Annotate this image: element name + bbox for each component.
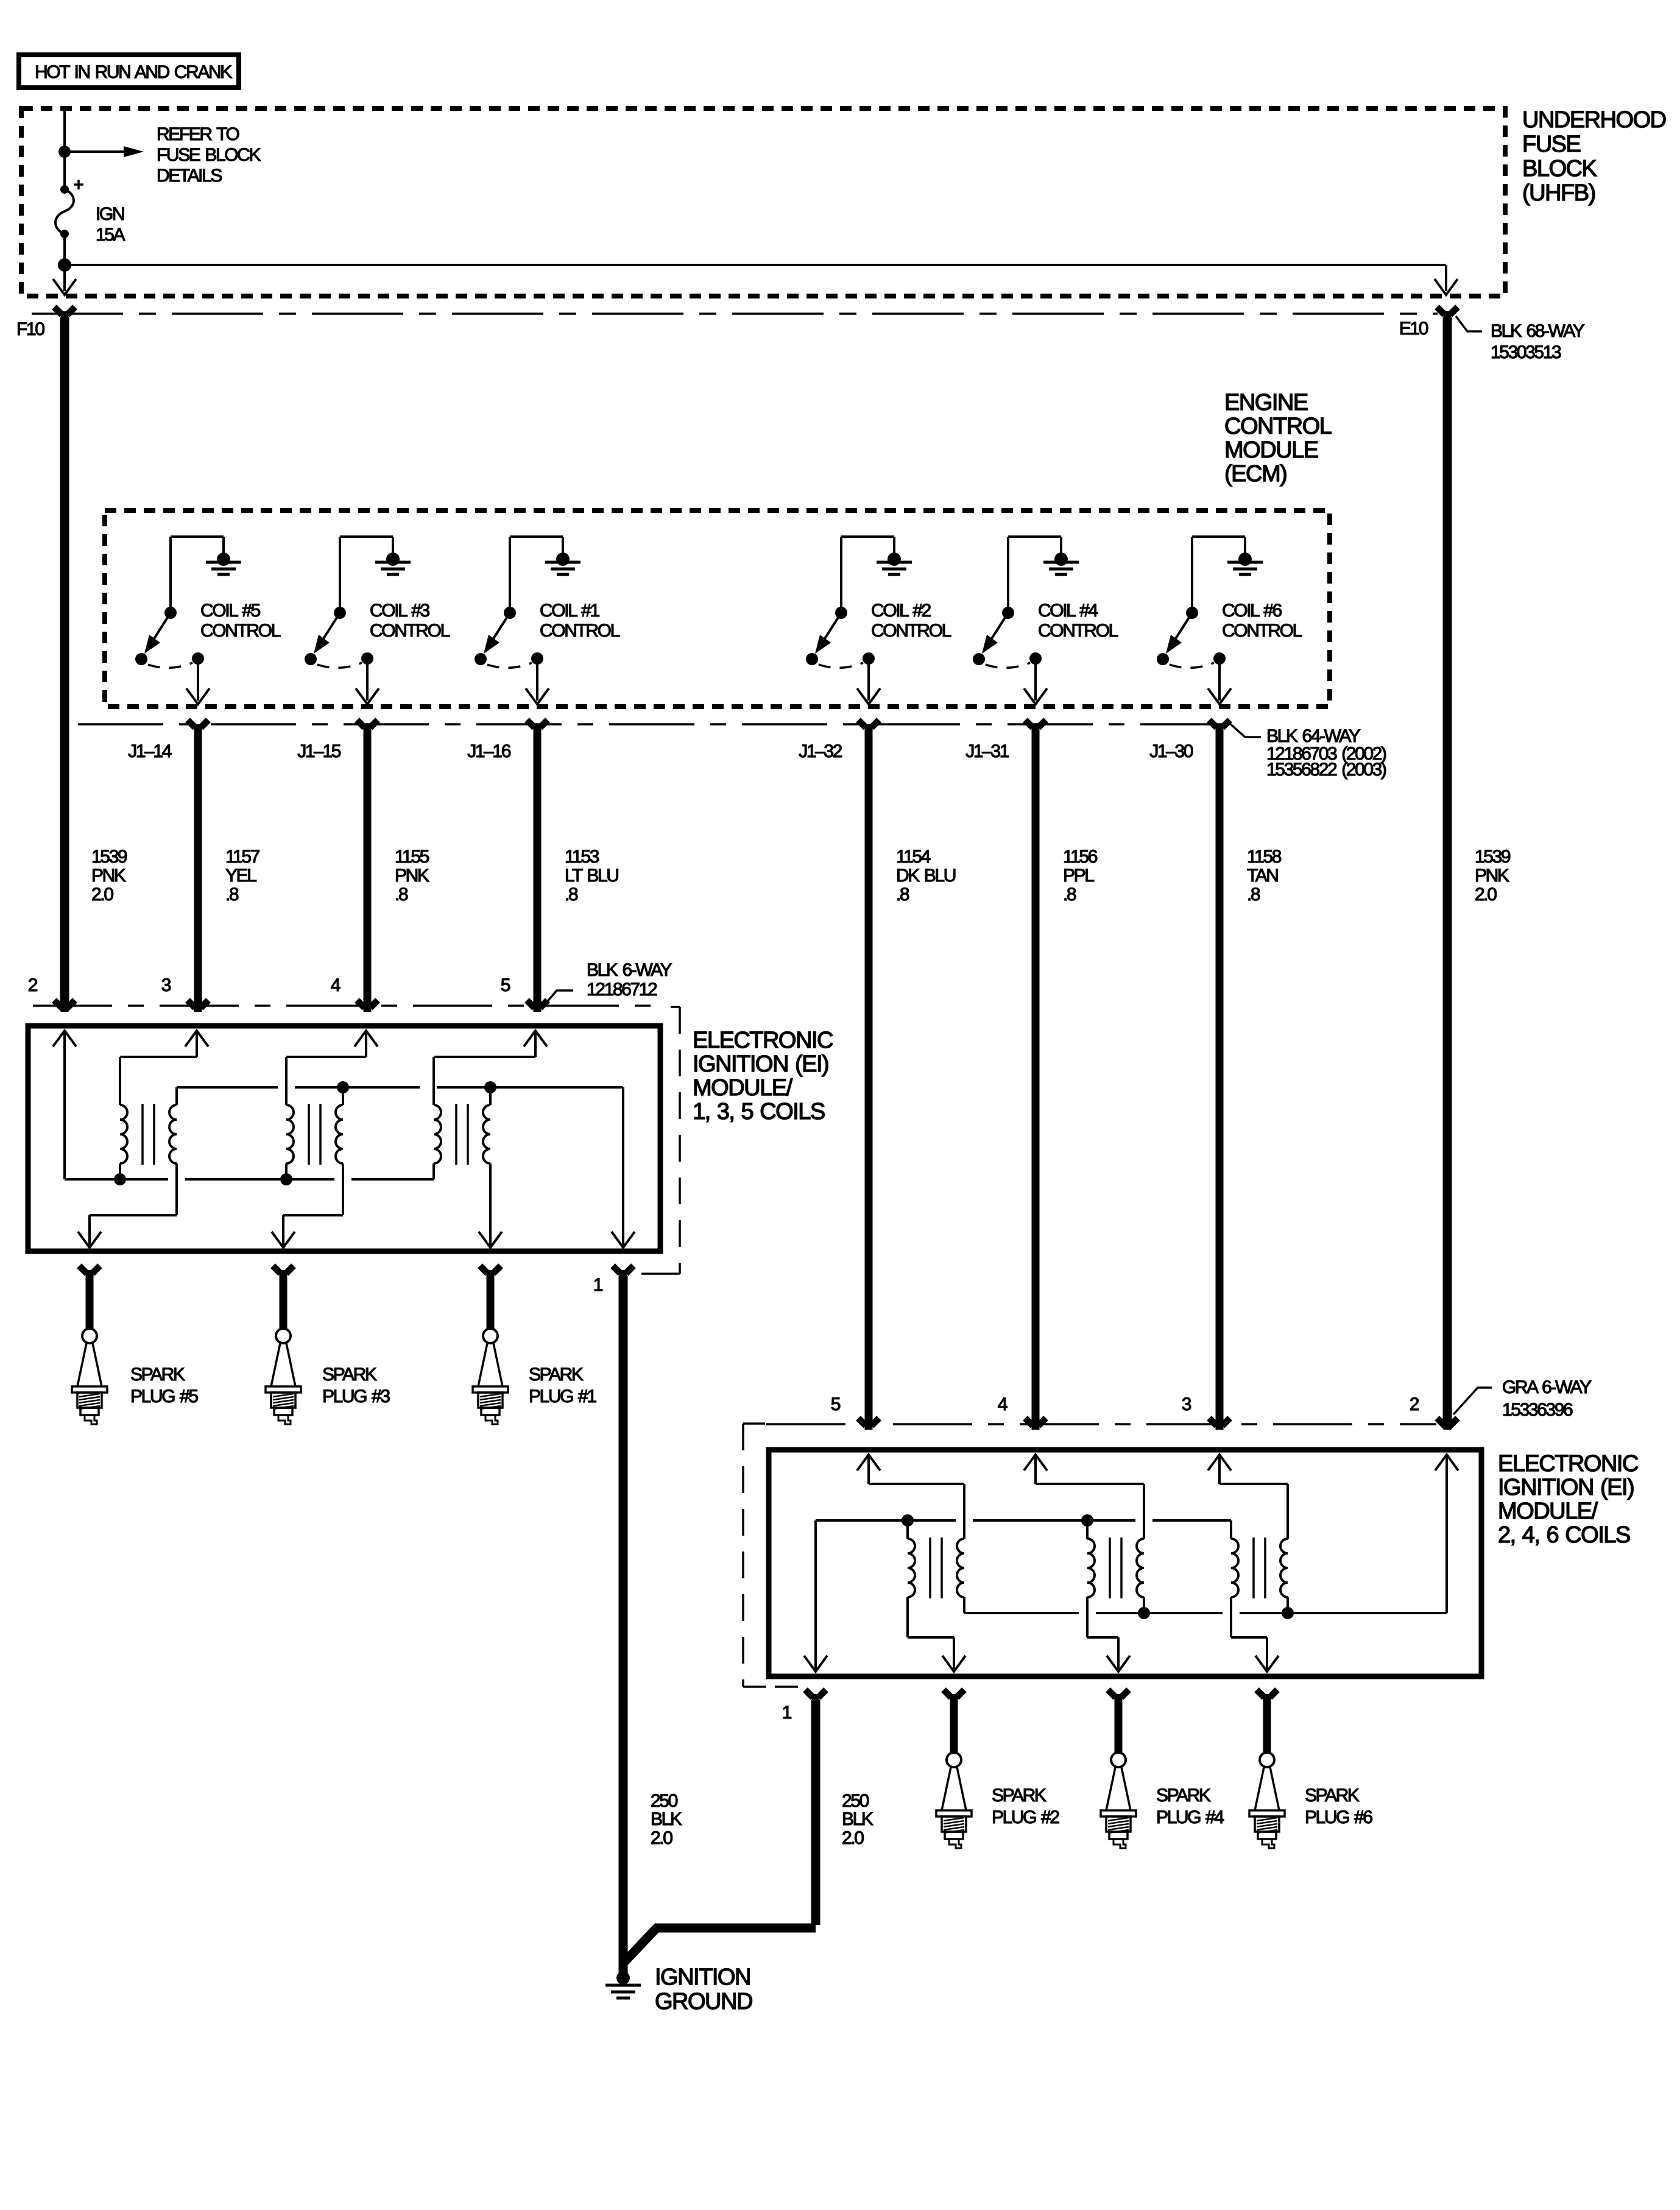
- ignition coil transformer T1 (EI module 2): [908, 1537, 964, 1598]
- svg-text:250: 250: [842, 1791, 869, 1811]
- ignition coil transformer T2 (EI module 2): [1087, 1537, 1144, 1598]
- wire secondary T2 to pin output: [272, 1163, 343, 1248]
- pin spark plug 2 out EI module 2: [944, 1690, 964, 1701]
- pin pin 1 ground out EI module 1: [613, 1266, 634, 1277]
- connector line BLK 64-WAY J1: [78, 723, 1230, 725]
- svg-text:DETAILS: DETAILS: [157, 166, 222, 186]
- coil #6 control switch wiring: [1192, 537, 1245, 608]
- svg-text:2.0: 2.0: [1475, 884, 1497, 905]
- switch contacts coil #6: [1157, 652, 1226, 668]
- wire secondary T3 to pin output: [479, 1163, 502, 1248]
- node primary T1 bottom: [114, 1173, 126, 1185]
- ignition coil transformer T2 (EI module 1): [286, 1104, 343, 1165]
- pin spark plug 6 out EI module 2: [1257, 1690, 1277, 1701]
- pin pin 1 ground out EI module 2: [805, 1690, 826, 1701]
- label COIL #2 CONTROL: [871, 601, 951, 641]
- svg-text:PPL: PPL: [1063, 866, 1094, 886]
- wire 250 BLK 2.0 from EI module 2 pin 1: [624, 1700, 874, 1963]
- svg-text:SPARK: SPARK: [992, 1785, 1046, 1806]
- switch pivot node coil #3: [334, 607, 346, 619]
- svg-text:1539: 1539: [91, 847, 127, 867]
- svg-text:PNK: PNK: [1475, 866, 1509, 886]
- svg-text:2.0: 2.0: [651, 1828, 672, 1848]
- svg-text:4: 4: [331, 975, 341, 995]
- switch arm coil #2: [815, 613, 841, 654]
- svg-text:2.0: 2.0: [91, 884, 113, 905]
- primary bottom bus EI module 2: [964, 1597, 1447, 1613]
- connector label BLK 6-WAY 12186712: [546, 960, 672, 1003]
- svg-text:TAN: TAN: [1247, 866, 1278, 886]
- pin 1 label EI module 2: [782, 1703, 792, 1723]
- svg-text:1155: 1155: [395, 847, 429, 867]
- label COIL #5 CONTROL: [200, 601, 281, 641]
- svg-text:15303513: 15303513: [1491, 342, 1561, 362]
- svg-text:CONTROL: CONTROL: [540, 621, 620, 641]
- svg-text:IGNITION: IGNITION: [655, 1965, 750, 1990]
- pin E10: [1399, 307, 1458, 339]
- spark plug #2: [936, 1699, 1059, 1848]
- wire 250 BLK 2.0 from EI module 1 pin 1: [623, 1276, 682, 1974]
- wire secondary bus to pin 1 output module 2: [804, 1520, 827, 1672]
- coil #1 control switch wiring: [510, 537, 563, 608]
- svg-text:J1–16: J1–16: [467, 741, 510, 761]
- svg-text:FUSE BLOCK: FUSE BLOCK: [157, 145, 261, 165]
- node secondary T3 top: [484, 1081, 496, 1093]
- svg-text:IGN: IGN: [96, 204, 124, 224]
- svg-text:BLK: BLK: [651, 1809, 682, 1829]
- svg-text:COIL #6: COIL #6: [1222, 601, 1282, 621]
- svg-text:PLUG #3: PLUG #3: [322, 1386, 390, 1407]
- switch pivot node coil #1: [504, 607, 516, 619]
- node secondary T2 top module 2: [1081, 1514, 1093, 1527]
- svg-text:IGNITION (EI): IGNITION (EI): [1498, 1475, 1634, 1500]
- switch contacts coil #2: [806, 652, 875, 668]
- svg-text:GRA 6-WAY: GRA 6-WAY: [1502, 1377, 1592, 1397]
- svg-text:5: 5: [831, 1394, 841, 1414]
- pin 1 label EI module 1: [593, 1275, 603, 1295]
- underhood fuse block (UHFB) dashed box: [21, 107, 1666, 296]
- svg-text:1156: 1156: [1063, 847, 1098, 867]
- svg-text:1539: 1539: [1475, 847, 1511, 867]
- svg-text:COIL #4: COIL #4: [1038, 601, 1098, 621]
- switch arm coil #3: [314, 613, 340, 654]
- svg-text:PLUG #1: PLUG #1: [529, 1386, 596, 1407]
- svg-text:SPARK: SPARK: [1305, 1785, 1360, 1806]
- svg-text:15336396: 15336396: [1502, 1400, 1573, 1420]
- svg-text:1: 1: [593, 1275, 603, 1295]
- spark plug #1: [473, 1275, 596, 1424]
- svg-text:PLUG #2: PLUG #2: [992, 1807, 1059, 1827]
- pin spark plug 1 out EI module 1: [480, 1266, 501, 1277]
- ignition ground symbol: [605, 1965, 752, 2014]
- svg-text:ELECTRONIC: ELECTRONIC: [693, 1028, 833, 1053]
- svg-text:.8: .8: [225, 884, 239, 905]
- svg-text:5: 5: [501, 975, 510, 995]
- svg-text:BLK 68-WAY: BLK 68-WAY: [1491, 321, 1585, 341]
- wire 1156 PPL .8: [1036, 732, 1098, 1429]
- svg-text:SPARK: SPARK: [322, 1364, 377, 1385]
- svg-text:12186712: 12186712: [587, 980, 657, 1000]
- arrow coil #3 output: [356, 658, 379, 704]
- label COIL #6 CONTROL: [1222, 601, 1302, 641]
- arrow into E10: [1435, 279, 1458, 295]
- svg-text:COIL #5: COIL #5: [200, 601, 261, 621]
- switch pivot node coil #5: [164, 607, 177, 619]
- svg-text:.8: .8: [1247, 884, 1260, 905]
- fuse IGN 15A: [55, 152, 125, 265]
- svg-text:.8: .8: [1063, 884, 1076, 905]
- wire secondary T1 to spark plug 2 output: [908, 1597, 965, 1672]
- spark plug #3: [266, 1275, 390, 1424]
- arrow coil #4 output: [1024, 658, 1047, 704]
- svg-text:J1–15: J1–15: [297, 741, 341, 761]
- svg-text:2, 4, 6 COILS: 2, 4, 6 COILS: [1498, 1522, 1630, 1548]
- wire secondary bus to pin 1 output: [612, 1087, 635, 1248]
- svg-text:250: 250: [651, 1791, 678, 1811]
- connector line BLK 6-WAY: [33, 1004, 658, 1007]
- connector label GRA 6-WAY 15336396: [1453, 1377, 1592, 1420]
- svg-text:1, 3, 5 COILS: 1, 3, 5 COILS: [693, 1099, 825, 1124]
- svg-text:REFER TO: REFER TO: [157, 124, 239, 144]
- ground (coil #5 driver): [206, 552, 241, 574]
- svg-text:15A: 15A: [96, 225, 125, 245]
- pin J1–16: [467, 720, 548, 761]
- svg-text:SPARK: SPARK: [1156, 1785, 1211, 1806]
- svg-text:UNDERHOOD: UNDERHOOD: [1522, 107, 1666, 133]
- pin 2 of GRA 6-WAY: [1410, 1394, 1458, 1430]
- engine control module (ECM) dashed box: [105, 390, 1332, 707]
- svg-text:1157: 1157: [225, 847, 260, 867]
- wire 1539 PNK 2.0 from E10: [1447, 317, 1511, 1429]
- svg-text:(ECM): (ECM): [1224, 461, 1286, 487]
- svg-text:LT BLU: LT BLU: [565, 866, 618, 886]
- switch arm coil #5: [144, 613, 171, 654]
- switch contacts coil #3: [305, 652, 373, 668]
- svg-text:PNK: PNK: [395, 866, 429, 886]
- secondary top bus EI module 2: [816, 1520, 1231, 1539]
- pin J1–15: [297, 720, 378, 761]
- svg-text:MODULE/: MODULE/: [693, 1075, 793, 1101]
- wire 1157 YEL .8: [198, 732, 260, 1011]
- pin 4 of BLK 6-WAY: [331, 975, 378, 1012]
- pin J1–30: [1149, 720, 1230, 761]
- arrow pin 3 feed EI module 2: [1208, 1455, 1288, 1539]
- wire secondary T2 to spark plug 4 output: [1087, 1597, 1130, 1672]
- arrow coil #1 output: [526, 658, 549, 704]
- svg-text:FUSE: FUSE: [1522, 132, 1581, 157]
- pin F10: [16, 307, 75, 339]
- svg-text:SPARK: SPARK: [130, 1364, 185, 1385]
- arrow pin 2 feed EI module 2: [1435, 1455, 1458, 1613]
- node primary T2 bottom: [280, 1173, 292, 1185]
- svg-text:PNK: PNK: [91, 866, 126, 886]
- switch contacts coil #4: [973, 652, 1042, 668]
- coil #4 control switch wiring: [1008, 537, 1061, 608]
- arrow pin 5 feed EI module 2: [857, 1455, 964, 1539]
- spark plug #5: [72, 1275, 198, 1424]
- ground (coil #4 driver): [1043, 552, 1079, 574]
- arrow pin 2 feed EI module 1: [53, 1031, 76, 1179]
- svg-text:SPARK: SPARK: [529, 1364, 584, 1385]
- arrow coil #2 output: [857, 658, 880, 704]
- node junction below fuse: [58, 258, 71, 272]
- svg-text:2: 2: [28, 975, 38, 995]
- dashed bracket around EI module 2 connector: [743, 1424, 798, 1687]
- pin 3 of BLK 6-WAY: [161, 975, 208, 1012]
- svg-text:YEL: YEL: [225, 866, 256, 886]
- svg-text:ENGINE: ENGINE: [1224, 390, 1308, 415]
- arrow pin 5 feed EI module 1: [434, 1031, 547, 1105]
- label COIL #3 CONTROL: [370, 601, 450, 641]
- pin 5 of GRA 6-WAY: [831, 1394, 879, 1430]
- svg-text:1158: 1158: [1247, 847, 1282, 867]
- svg-text:J1–30: J1–30: [1149, 741, 1193, 761]
- ground (coil #6 driver): [1227, 552, 1263, 574]
- arrow coil #6 output: [1208, 658, 1231, 704]
- switch contacts coil #5: [135, 652, 204, 668]
- electronic ignition module 1,3,5 coils box: [28, 1026, 833, 1251]
- wire 1153 LT BLU .8: [537, 732, 618, 1011]
- connector line GRA 6-WAY: [766, 1423, 1436, 1425]
- svg-text:BLOCK: BLOCK: [1522, 156, 1597, 182]
- pin spark plug 5 out EI module 1: [79, 1266, 100, 1277]
- svg-text:2: 2: [1410, 1394, 1419, 1414]
- svg-text:F10: F10: [16, 319, 44, 339]
- svg-text:COIL #1: COIL #1: [540, 601, 600, 621]
- wire 1158 TAN .8: [1219, 732, 1282, 1429]
- wire 1155 PNK .8: [367, 732, 429, 1011]
- pin 5 of BLK 6-WAY: [501, 975, 548, 1012]
- switch pivot node coil #6: [1186, 607, 1198, 619]
- svg-text:J1–32: J1–32: [799, 741, 842, 761]
- pin J1–32: [799, 720, 879, 761]
- arrow pin 4 feed EI module 2: [1024, 1455, 1144, 1539]
- secondary top bus EI module 1: [177, 1087, 623, 1105]
- svg-text:3: 3: [161, 975, 171, 995]
- connector label BLK 64-WAY 12186703 (2002) 15356822 (2003): [1229, 723, 1386, 780]
- ignition coil transformer T1 (EI module 1): [120, 1104, 177, 1165]
- switch arm coil #4: [982, 613, 1008, 654]
- switch contacts coil #1: [475, 652, 543, 668]
- node junction at fuse feed: [58, 146, 71, 158]
- coil #3 control switch wiring: [340, 537, 393, 608]
- svg-text:1153: 1153: [565, 847, 599, 867]
- svg-text:3: 3: [1182, 1394, 1191, 1414]
- node primary T3 bottom module 2: [1282, 1607, 1294, 1619]
- arrow REFER TO FUSE BLOCK DETAILS: [65, 124, 261, 186]
- coil #5 control switch wiring: [171, 537, 224, 608]
- svg-text:HOT IN RUN AND CRANK: HOT IN RUN AND CRANK: [35, 62, 232, 82]
- svg-text:.8: .8: [896, 884, 909, 905]
- arrow pin 3 feed EI module 1: [120, 1031, 208, 1105]
- primary bottom bus EI module 1: [65, 1163, 434, 1179]
- switch arm coil #1: [484, 613, 510, 654]
- svg-text:PLUG #4: PLUG #4: [1156, 1807, 1224, 1827]
- spark plug #4: [1101, 1699, 1224, 1848]
- arrow into F10: [53, 265, 76, 295]
- ignition coil transformer T3 (EI module 1): [434, 1104, 490, 1165]
- arrow pin 4 feed EI module 1: [286, 1031, 378, 1105]
- switch pivot node coil #4: [1002, 607, 1014, 619]
- connector label BLK 68-WAY 15303513: [1456, 316, 1585, 362]
- svg-text:CONTROL: CONTROL: [1224, 414, 1332, 439]
- node secondary T1 top module 2: [902, 1514, 914, 1527]
- pin 3 of GRA 6-WAY: [1182, 1394, 1230, 1430]
- svg-text:MODULE/: MODULE/: [1498, 1499, 1598, 1524]
- ground (coil #3 driver): [375, 552, 411, 574]
- svg-text:CONTROL: CONTROL: [1038, 621, 1118, 641]
- svg-text:1: 1: [782, 1703, 792, 1723]
- svg-text:15356822 (2003): 15356822 (2003): [1266, 760, 1386, 780]
- pin J1–14: [128, 720, 208, 761]
- wire from UHFB top to junction: [63, 110, 66, 152]
- ground (coil #2 driver): [877, 552, 912, 574]
- svg-text:.8: .8: [565, 884, 578, 905]
- svg-text:1154: 1154: [896, 847, 931, 867]
- svg-text:J1–14: J1–14: [128, 741, 171, 761]
- label COIL #1 CONTROL: [540, 601, 620, 641]
- svg-text:(UHFB): (UHFB): [1522, 180, 1595, 206]
- pin J1–31: [965, 720, 1046, 761]
- label COIL #4 CONTROL: [1038, 601, 1118, 641]
- svg-text:CONTROL: CONTROL: [1222, 621, 1302, 641]
- node secondary T2 top: [337, 1081, 349, 1093]
- pin spark plug 3 out EI module 1: [273, 1266, 294, 1277]
- svg-text:PLUG #6: PLUG #6: [1305, 1807, 1372, 1827]
- wire secondary T1 to pin output: [78, 1163, 177, 1248]
- svg-text:E10: E10: [1399, 319, 1428, 339]
- node primary T2 bottom module 2: [1138, 1607, 1150, 1619]
- wire UHFB bus to E10: [65, 265, 1446, 291]
- svg-text:J1–31: J1–31: [965, 741, 1009, 761]
- svg-text:MODULE: MODULE: [1224, 437, 1318, 463]
- svg-text:BLK 6-WAY: BLK 6-WAY: [587, 960, 672, 980]
- switch pivot node coil #2: [835, 607, 847, 619]
- svg-text:2.0: 2.0: [842, 1828, 864, 1848]
- wire secondary T3 to spark plug 6 output: [1231, 1597, 1279, 1672]
- pin spark plug 4 out EI module 2: [1108, 1690, 1129, 1701]
- electronic ignition module 2,4,6 coils box: [769, 1450, 1638, 1676]
- svg-text:CONTROL: CONTROL: [200, 621, 281, 641]
- svg-text:ELECTRONIC: ELECTRONIC: [1498, 1451, 1638, 1477]
- spark plug #6: [1249, 1699, 1372, 1848]
- svg-text:COIL #3: COIL #3: [370, 601, 430, 621]
- connector line BLK 68-WAY: [32, 312, 1438, 315]
- ground (coil #1 driver): [545, 552, 581, 574]
- arrow coil #5 output: [186, 658, 210, 704]
- svg-text:4: 4: [998, 1394, 1008, 1414]
- svg-text:CONTROL: CONTROL: [370, 621, 450, 641]
- wire 1154 DK BLU .8: [869, 732, 956, 1429]
- svg-text:IGNITION (EI): IGNITION (EI): [693, 1051, 828, 1077]
- svg-text:.8: .8: [395, 884, 408, 905]
- svg-text:DK BLU: DK BLU: [896, 866, 956, 886]
- svg-text:CONTROL: CONTROL: [871, 621, 951, 641]
- pin 2 of BLK 6-WAY: [28, 975, 75, 1012]
- dashed bracket around EI module 1 connector: [641, 1007, 680, 1274]
- switch arm coil #6: [1166, 613, 1192, 654]
- flag box HOT IN RUN AND CRANK: [19, 55, 239, 88]
- svg-text:GROUND: GROUND: [655, 1989, 752, 2014]
- ignition coil transformer T3 (EI module 2): [1231, 1537, 1288, 1598]
- svg-text:BLK: BLK: [842, 1809, 874, 1829]
- svg-text:COIL #2: COIL #2: [871, 601, 931, 621]
- coil #2 control switch wiring: [841, 537, 894, 608]
- pin 4 of GRA 6-WAY: [998, 1394, 1046, 1430]
- svg-text:PLUG #5: PLUG #5: [130, 1386, 198, 1407]
- wire 1539 PNK 2.0 from F10: [65, 317, 127, 1011]
